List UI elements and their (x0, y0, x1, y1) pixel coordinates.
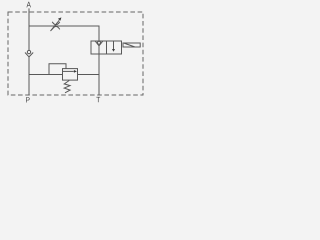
wire: relief valve outlet to T line (78, 74, 100, 76)
relief valve RV1 pilot line (49, 64, 66, 75)
relief valve RV1 body (63, 69, 78, 81)
directional valve V1 right box flow arrow (112, 41, 115, 51)
enclosure dashed boundary (8, 12, 143, 95)
relief valve RV1 spring (64, 81, 70, 93)
directional valve V1 left box check symbol (95, 41, 103, 54)
wire: directional valve down to T port (98, 54, 100, 95)
background (0, 0, 150, 107)
throttle adjustment arrow (51, 17, 62, 31)
port label P (26, 97, 30, 102)
port label T (96, 97, 100, 102)
wire: top branch from A line to directional valve (29, 26, 99, 41)
throttle (adjustable restrictor) arcs (52, 22, 60, 30)
directional valve V1 left position box (check valve state) (91, 41, 107, 54)
wire: check valve down to P port (28, 57, 30, 95)
relief valve RV1 internal flow arrow (63, 70, 77, 73)
solenoid actuator of valve V1 (123, 43, 140, 47)
port label A (26, 2, 30, 8)
wire: A port down to check valve (28, 8, 30, 50)
wire: relief valve inlet from P line (29, 74, 63, 76)
check valve CV1 (ball in seat) (25, 50, 33, 57)
directional valve V1 right position box (open flow) (107, 41, 122, 54)
